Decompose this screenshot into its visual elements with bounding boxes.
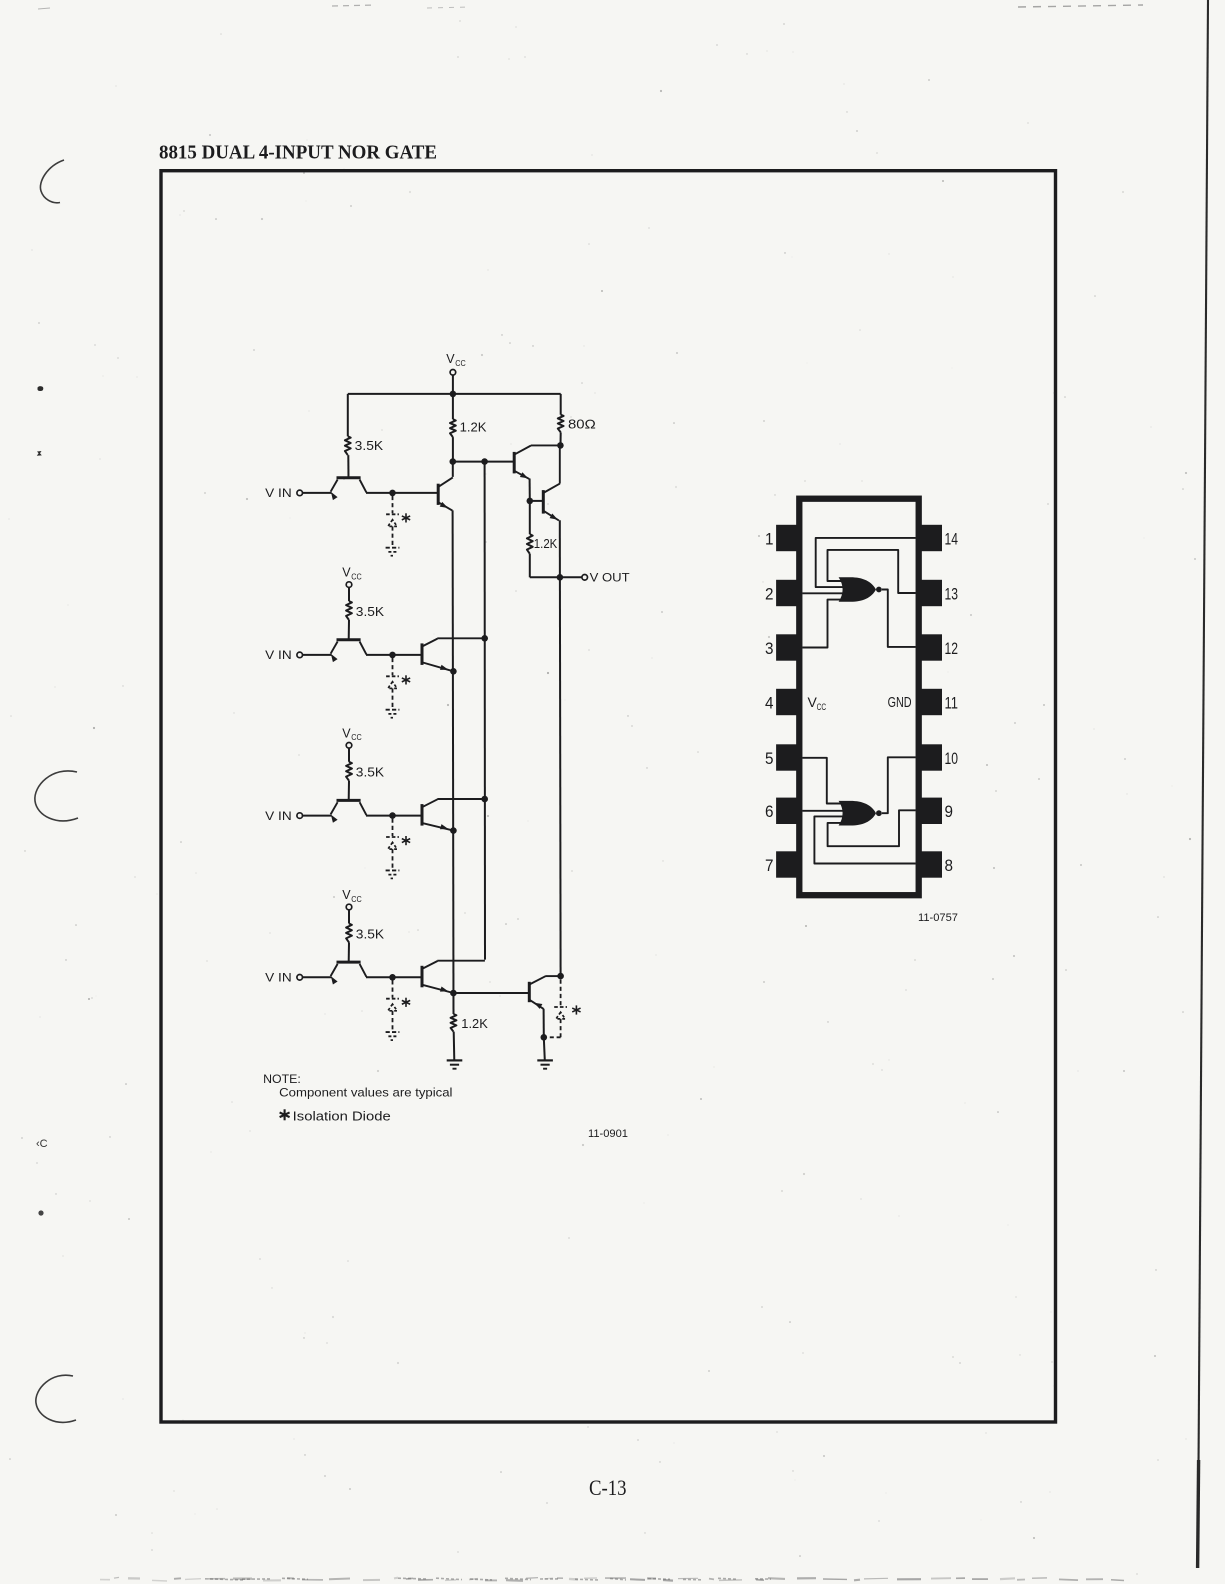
pin 3	[776, 634, 800, 660]
resistor 3.5K stage 4	[346, 924, 352, 943]
pin 12	[919, 634, 942, 660]
margin speck marks	[38, 386, 44, 391]
dashed ground stage 1	[386, 547, 400, 549]
dashed ground stage 2	[386, 709, 400, 711]
wire: pin 8 to G2 input	[814, 816, 915, 863]
node: Q6 base node	[527, 498, 534, 505]
svg-text:Component values are typical: Component values are typical	[279, 1085, 452, 1099]
svg-text:1.2K: 1.2K	[534, 537, 558, 551]
node: Q7 emitter / diode return	[541, 1034, 548, 1041]
svg-text:V: V	[342, 566, 351, 580]
transistor input Q stage 2	[337, 638, 361, 641]
wire: rail down to R3	[560, 394, 562, 415]
svg-text:13: 13	[945, 584, 959, 603]
svg-text:CC: CC	[351, 572, 362, 582]
wire: R2 to base node	[452, 437, 454, 462]
wire: Q6 base node down to R4	[529, 501, 531, 534]
wire: pin 13 to G1 input	[828, 550, 916, 593]
node: output bus bottom	[557, 973, 564, 980]
svg-text:5: 5	[765, 749, 774, 768]
ground (Q7)	[537, 1059, 553, 1061]
node: input node stage 3	[389, 812, 396, 819]
resistor R3 80 ohm	[558, 415, 564, 433]
svg-text:6: 6	[765, 802, 774, 821]
svg-text:3.5K: 3.5K	[355, 439, 384, 453]
node: input node stage 2	[389, 652, 396, 659]
wire: R4 to output node	[529, 554, 531, 578]
svg-text:10: 10	[945, 749, 959, 768]
wire: pin 6 to G2 input	[803, 810, 847, 812]
svg-text:12: 12	[945, 639, 959, 658]
wire: Q7 emitter down	[543, 1009, 545, 1038]
isolation diode stage 3	[392, 819, 394, 836]
isolation diode (output)	[560, 980, 562, 1007]
svg-text:2: 2	[765, 584, 774, 603]
NOR gate G1 (top)	[839, 577, 876, 602]
transistor input Q stage 1	[337, 476, 361, 479]
wire: Q5 emitter down	[529, 479, 531, 501]
node: input node stage 4	[389, 974, 396, 981]
pin 8	[919, 851, 942, 877]
right scan edge line	[1198, 0, 1208, 1545]
node: base node A	[450, 458, 457, 465]
svg-text:V: V	[446, 352, 455, 366]
transistor driver stage 1	[437, 484, 440, 505]
wire: output bus down	[559, 577, 562, 976]
svg-text:11: 11	[945, 693, 959, 712]
svg-text:CC: CC	[817, 702, 827, 713]
svg-text:V IN: V IN	[265, 650, 292, 662]
svg-text:NOTE:: NOTE:	[263, 1072, 301, 1086]
pin 10	[919, 744, 942, 770]
IC package body U1	[799, 499, 918, 896]
wire: pin 2 to G1 input	[803, 592, 847, 594]
dashed ground stage 3	[386, 869, 400, 871]
pin 9	[919, 798, 942, 824]
node: emitter bus junction stage 2	[450, 668, 457, 675]
hole punch arc middle	[35, 771, 78, 821]
figure border frame	[161, 171, 1056, 1422]
pin 14	[919, 525, 942, 551]
wire: emitter bus vertical	[452, 510, 455, 1014]
svg-text:11-0757: 11-0757	[918, 912, 958, 924]
wire: rail down to R2	[452, 394, 454, 419]
pin 1	[776, 525, 800, 551]
wire: collector to node	[366, 492, 393, 494]
wire: Vcc to R	[348, 910, 350, 924]
wire: pin 5 to G2 input	[803, 758, 847, 804]
pin 11	[919, 689, 942, 715]
wire: collector to node	[366, 654, 393, 656]
NOR gate G2 (bottom)	[839, 801, 876, 826]
wire: V IN to emitter	[303, 976, 332, 978]
wire: collector to node	[366, 815, 393, 817]
transistor input Q stage 3	[337, 799, 361, 802]
terminal V OUT	[560, 576, 582, 578]
svg-text:1: 1	[765, 529, 774, 548]
svg-text:3.5K: 3.5K	[356, 766, 385, 780]
wire: G1 output to pin 12	[882, 590, 916, 647]
svg-text:8815 DUAL 4-INPUT NOR GATE: 8815 DUAL 4-INPUT NOR GATE	[159, 142, 437, 164]
resistor R2 1.2K	[450, 419, 456, 437]
node: rail junction	[450, 391, 457, 398]
hole punch arc bottom	[36, 1375, 76, 1422]
node: emitter bus to Q7 base	[453, 992, 529, 994]
resistor 3.5K stage 2	[346, 601, 352, 620]
transistor driver stage 3	[421, 804, 424, 826]
svg-text:3: 3	[765, 639, 774, 658]
wire: Vcc to R	[348, 748, 350, 762]
node: collector bus junction stage 2	[481, 635, 488, 642]
transistor driver stage 2	[421, 643, 424, 665]
wire: V IN to emitter	[303, 654, 332, 656]
svg-text:3.5K: 3.5K	[356, 927, 385, 941]
wire: node to driver base	[393, 492, 439, 494]
pin 5	[776, 744, 800, 770]
top edge scan noise	[332, 5, 376, 6]
hole punch arc top	[40, 160, 64, 203]
svg-text:CC: CC	[351, 732, 362, 742]
svg-text:7: 7	[765, 856, 774, 875]
resistor 3.5K stage 3	[346, 762, 352, 781]
resistor R1 3.5K	[345, 436, 351, 455]
svg-text:14: 14	[945, 529, 959, 548]
svg-text:8: 8	[945, 856, 954, 875]
wire: base node horizontal to Q5	[453, 461, 514, 463]
isolation diode stage 1	[392, 496, 394, 513]
wire: pin 14 to G1 input	[816, 538, 916, 587]
wire: Q6 emitter down to output node	[559, 520, 561, 577]
wire: Vcc stub to rail	[452, 375, 454, 394]
node: collector bus junction stage 3	[481, 796, 488, 803]
wire: Q2 collector up	[452, 462, 454, 477]
svg-text:V: V	[342, 726, 351, 740]
note asterisk legend	[284, 1109, 286, 1120]
resistor R4 1.2K	[527, 534, 533, 554]
node: emitter bus junction stage 4	[450, 990, 457, 997]
dashed ground stage 4	[386, 1031, 400, 1033]
node: Q5 collector node	[557, 442, 564, 449]
wire: V IN to emitter	[303, 492, 332, 494]
svg-text:1.2K: 1.2K	[461, 1017, 488, 1031]
pin 4	[776, 689, 800, 715]
wire: R1 to Q1 base	[347, 455, 349, 478]
isolation diode stage 2	[392, 658, 394, 675]
svg-text:11-0901: 11-0901	[588, 1128, 628, 1140]
svg-text:GND: GND	[888, 694, 912, 711]
wire: rail to R1	[347, 394, 349, 436]
svg-text:‹C: ‹C	[36, 1138, 48, 1150]
node: emitter bus junction stage 3	[450, 827, 457, 834]
transistor driver stage 4	[421, 966, 424, 988]
svg-text:CC: CC	[455, 358, 466, 368]
resistor R5 1.2K (emitter bus to ground)	[451, 1014, 457, 1032]
isolation diode stage 4	[392, 980, 394, 997]
transistor input Q stage 4	[337, 961, 361, 964]
svg-text:CC: CC	[351, 894, 362, 904]
svg-text:80Ω: 80Ω	[568, 418, 596, 432]
wire: G2 output to pin 10	[882, 757, 916, 813]
transistor Q6	[530, 500, 544, 502]
wire: V IN to emitter	[303, 815, 332, 817]
bottom edge scan noise	[100, 1579, 110, 1581]
wire: R3 to Q5 collector node	[560, 432, 562, 445]
wire: node to driver base	[393, 976, 423, 978]
wire: R to base	[348, 781, 350, 801]
wire: R to base	[348, 942, 350, 962]
transistor Q7 (output clamp)	[528, 982, 531, 1002]
(paper speckle, decorative)	[766, 50, 767, 51]
wire: collector to node	[366, 976, 393, 978]
svg-text:9: 9	[945, 802, 954, 821]
svg-text:3.5K: 3.5K	[356, 605, 385, 619]
pin 2	[776, 580, 800, 606]
wire: R to base	[348, 620, 350, 640]
wire: node to driver base	[393, 654, 423, 656]
svg-text:V: V	[342, 888, 351, 902]
transistor Q5	[513, 452, 516, 474]
node: V OUT junction	[557, 574, 564, 581]
svg-text:V IN: V IN	[265, 973, 292, 985]
wire: pin 3 to G1 input	[803, 600, 847, 648]
svg-text:V OUT: V OUT	[590, 573, 630, 585]
node: input node stage 1	[389, 490, 396, 497]
pin 13	[919, 580, 942, 606]
svg-text:V IN: V IN	[265, 811, 292, 823]
wire: to ground	[544, 1037, 545, 1060]
wire: collector bus vertical	[484, 462, 486, 960]
wire: node to driver base	[393, 815, 423, 817]
svg-text:Isolation Diode: Isolation Diode	[293, 1109, 391, 1124]
pin 6	[776, 798, 800, 824]
wire: pin 9 to G2 input	[828, 810, 916, 846]
svg-text:C-13: C-13	[589, 1475, 627, 1500]
svg-text:1.2K: 1.2K	[460, 421, 488, 435]
svg-text:4: 4	[765, 693, 774, 712]
wire: R5 to ground	[453, 1032, 456, 1061]
node: collector bus tap	[481, 458, 488, 465]
wire: top horizontal rail	[348, 393, 561, 395]
ground (R5)	[447, 1059, 463, 1061]
pin 7	[776, 851, 800, 877]
svg-text:V IN: V IN	[265, 488, 292, 500]
wire: Vcc to R	[348, 587, 350, 601]
